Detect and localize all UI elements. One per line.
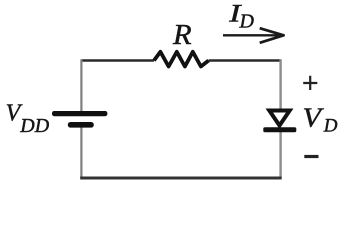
current arrow I_D shaft	[223, 34, 279, 36]
svg-text:D: D	[239, 11, 255, 33]
diode D1 triangle	[269, 111, 289, 126]
svg-text:R: R	[172, 20, 192, 51]
wire left vertical upper	[80, 59, 82, 111]
wire bottom	[80, 177, 281, 180]
svg-text:VDD: VDD	[6, 100, 50, 137]
label plus	[303, 76, 317, 90]
wire left vertical lower	[80, 127, 82, 179]
wire right vertical lower	[279, 131, 281, 179]
wire top-left lead	[81, 59, 154, 61]
current arrow I_D head	[260, 28, 284, 43]
svg-text:V: V	[303, 103, 325, 133]
wire top-right lead	[209, 59, 281, 61]
wire right vertical upper	[279, 59, 281, 109]
battery V_DD long plate	[52, 111, 107, 116]
label minus	[304, 155, 318, 158]
resistor R zigzag	[154, 52, 209, 67]
svg-text:D: D	[323, 116, 338, 137]
diode D1 cathode bar	[263, 127, 296, 132]
battery V_DD short plate	[68, 122, 94, 128]
